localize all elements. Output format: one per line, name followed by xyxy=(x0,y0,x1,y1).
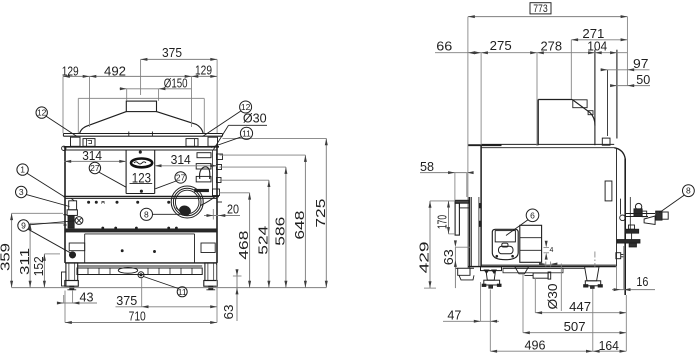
svg-text:Ø30: Ø30 xyxy=(243,110,267,125)
svg-text:375: 375 xyxy=(116,293,137,308)
svg-text:58: 58 xyxy=(420,159,434,174)
svg-text:311: 311 xyxy=(17,248,32,275)
svg-text:Ø150: Ø150 xyxy=(164,75,188,90)
svg-text:492: 492 xyxy=(104,64,126,79)
svg-text:104: 104 xyxy=(587,39,607,54)
svg-text:710: 710 xyxy=(129,308,146,323)
svg-text:4: 4 xyxy=(550,247,554,254)
svg-text:16: 16 xyxy=(636,274,648,289)
svg-text:8: 8 xyxy=(686,186,691,196)
svg-text:9: 9 xyxy=(21,221,26,231)
svg-text:12: 12 xyxy=(37,108,47,118)
svg-text:314: 314 xyxy=(82,148,102,163)
svg-text:50: 50 xyxy=(636,72,650,87)
svg-text:129: 129 xyxy=(195,63,212,78)
svg-text:1: 1 xyxy=(20,165,25,175)
svg-text:20: 20 xyxy=(227,202,239,217)
svg-text:586: 586 xyxy=(273,217,288,246)
svg-text:123: 123 xyxy=(132,170,151,186)
svg-text:278: 278 xyxy=(541,39,563,54)
svg-text:47: 47 xyxy=(447,307,461,322)
svg-text:11: 11 xyxy=(242,128,251,138)
svg-text:6: 6 xyxy=(530,210,535,220)
svg-text:27: 27 xyxy=(90,163,100,173)
svg-text:359: 359 xyxy=(0,243,13,271)
svg-text:66: 66 xyxy=(436,39,452,54)
svg-text:429: 429 xyxy=(416,241,431,273)
svg-text:27: 27 xyxy=(176,172,186,182)
svg-text:43: 43 xyxy=(80,290,94,305)
svg-text:375: 375 xyxy=(162,45,182,60)
svg-text:496: 496 xyxy=(525,337,546,352)
svg-text:648: 648 xyxy=(292,211,307,240)
svg-text:Ø30: Ø30 xyxy=(545,284,560,310)
svg-text:63: 63 xyxy=(441,249,456,265)
svg-text:152: 152 xyxy=(31,256,46,276)
svg-text:170: 170 xyxy=(435,215,450,229)
svg-text:11: 11 xyxy=(178,287,187,297)
svg-text:164: 164 xyxy=(599,338,619,353)
svg-text:97: 97 xyxy=(633,56,649,71)
svg-text:63: 63 xyxy=(221,305,236,320)
svg-text:8: 8 xyxy=(144,209,149,219)
svg-text:3: 3 xyxy=(19,187,24,197)
svg-text:468: 468 xyxy=(236,231,251,260)
svg-text:314: 314 xyxy=(171,152,191,167)
svg-text:275: 275 xyxy=(490,38,512,53)
svg-text:447: 447 xyxy=(569,299,591,314)
svg-text:725: 725 xyxy=(313,199,328,228)
svg-text:524: 524 xyxy=(256,226,271,255)
svg-text:773: 773 xyxy=(533,3,548,15)
svg-text:129: 129 xyxy=(62,63,79,78)
svg-text:507: 507 xyxy=(564,319,586,334)
